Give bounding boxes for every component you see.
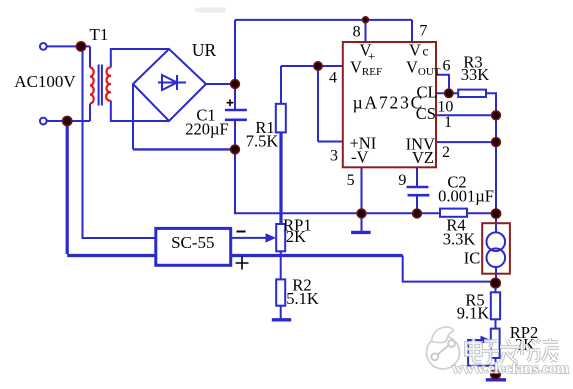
resistor R1 body <box>276 104 286 133</box>
svg-text:3.3K: 3.3K <box>443 230 476 249</box>
wire pin 8 lead <box>365 20 367 42</box>
resistor R3 body <box>458 90 486 97</box>
wire pin 7 lead <box>411 20 413 42</box>
svg-text:2K: 2K <box>286 227 306 246</box>
wire AC sense top: vertical from top junction down to SC-55 upper input <box>83 46 156 238</box>
wire SC-55 plus output rail (thick) <box>231 254 403 257</box>
svg-text:33K: 33K <box>461 65 490 84</box>
svg-text:6: 6 <box>443 58 451 75</box>
svg-text:10: 10 <box>437 99 453 116</box>
bridge rectifier UR diode symbol <box>158 75 186 90</box>
wire R5 top lead <box>495 283 497 292</box>
wire RP1 bottom lead <box>280 251 282 255</box>
junction C2 / minus rail <box>413 209 422 218</box>
svg-text:IC: IC <box>464 249 481 268</box>
svg-text:5: 5 <box>347 172 355 189</box>
junction CS / right bus <box>492 111 501 120</box>
svg-text:SC-55: SC-55 <box>171 233 214 252</box>
transformer T1 primary winding <box>90 68 94 104</box>
svg-text:VZ: VZ <box>412 148 434 167</box>
svg-text:7.5K: 7.5K <box>246 132 279 151</box>
svg-text:µA723C: µA723C <box>353 93 424 113</box>
wire pin 5 ground stub <box>361 213 363 232</box>
svg-text:UR: UR <box>192 40 217 60</box>
wire C1 bus vertical upper <box>234 20 236 110</box>
wire R5 to RP2 <box>495 319 497 328</box>
svg-text:1: 1 <box>444 114 452 131</box>
junction lamp IC bottom / R5 <box>491 278 501 288</box>
lamp/optocoupler IC box <box>482 223 510 274</box>
wire primary top lead <box>89 46 91 67</box>
SC-55 block <box>156 228 231 265</box>
wire secondary top lead to bridge top corner <box>111 49 169 68</box>
wire top rail V+ <box>235 19 412 21</box>
wire bottom rail to C1 minus junction <box>133 148 235 150</box>
svg-text:4: 4 <box>329 70 337 87</box>
wire CS pin line <box>436 114 496 116</box>
wire R3 right lead down right bus <box>486 93 496 213</box>
junction R4 / lamp IC top <box>491 209 500 218</box>
watermark smudge top <box>195 8 226 13</box>
terminal input bottom <box>40 118 47 125</box>
lamp IC lower circle <box>487 248 506 267</box>
wire plus feed down and right to lamp bottom node <box>403 256 496 282</box>
resistor R2 body <box>276 279 285 305</box>
wire R1 bottom lead to RP1 (thick) <box>279 132 282 224</box>
svg-text:www.elecfans.com: www.elecfans.com <box>452 361 569 377</box>
wire CL pin to R3 <box>436 92 458 94</box>
wire top terminal to transformer primary <box>47 45 90 47</box>
capacitor C1 polarity plus <box>227 99 234 106</box>
wire minus rail: R4 right lead to right bus <box>467 212 496 214</box>
wire R2 bottom lead to ground <box>280 306 282 320</box>
svg-text:8: 8 <box>353 24 361 41</box>
junction pin 8 on V+ rail <box>363 17 369 23</box>
bridge rectifier UR body <box>133 49 206 121</box>
transformer T1 core <box>99 65 102 106</box>
potentiometer RP2 body <box>491 329 500 358</box>
wire pin 5 lead <box>361 167 363 213</box>
junction bridge plus / C1 top <box>231 80 240 89</box>
capacitor C2 plates <box>407 187 430 195</box>
wire pin 4 VREF line <box>281 65 343 67</box>
junction RP2 / ground <box>491 369 501 379</box>
wire AC sense bottom: from bottom junction down to SC-55 lower input (thick) <box>67 121 156 256</box>
wire bridge negative corner down to bottom rail <box>132 84 134 149</box>
wire INV pin line <box>436 141 496 143</box>
wire lamp IC bottom lead <box>495 267 497 283</box>
junction VREF-NI link <box>314 62 322 70</box>
watermark logo circle <box>427 327 460 369</box>
ground below R2 <box>272 318 291 321</box>
svg-text:9: 9 <box>398 172 406 189</box>
potentiometer RP1 wiper arrowhead <box>266 233 277 242</box>
ground at bottom right <box>486 378 506 381</box>
svg-text:5.1K: 5.1K <box>286 289 319 308</box>
junction bottom terminal node <box>63 116 72 125</box>
wire minus rail: C1 minus down and across to R4 <box>235 149 440 213</box>
watermark chinese text 电子发烧友 (embossed) <box>466 338 559 363</box>
wire RP1 wiper feed from SC-55 minus output <box>231 237 266 239</box>
potentiometer RP1 body <box>276 224 285 251</box>
svg-text:VREF: VREF <box>350 58 382 79</box>
terminal input top <box>40 43 47 50</box>
svg-text:AC100V: AC100V <box>14 72 76 91</box>
svg-text:3: 3 <box>330 148 338 165</box>
IC U1 uA723C box <box>343 42 436 167</box>
polarity minus at SC-55 output <box>237 231 246 233</box>
svg-text:7: 7 <box>419 23 427 40</box>
junction INV / right bus <box>492 138 501 147</box>
svg-text:2: 2 <box>442 144 450 161</box>
transformer T1 secondary winding <box>106 67 111 100</box>
svg-text:-V: -V <box>351 148 368 167</box>
wire RP2 wiper return <box>468 340 495 366</box>
svg-text:9.1K: 9.1K <box>457 304 490 323</box>
svg-text:220µF: 220µF <box>185 120 228 139</box>
polarity plus at SC-55 output <box>236 257 249 270</box>
potentiometer RP2 wiper arrowhead <box>481 336 491 345</box>
wire C2 bottom to minus rail <box>416 195 418 213</box>
junction C1 minus / bottom rail <box>231 145 240 154</box>
wire VREF to NI link <box>317 66 319 142</box>
wire secondary bottom lead to bridge bottom corner <box>111 101 169 122</box>
wire R2 top lead <box>280 256 282 280</box>
wire C1 bus vertical lower <box>234 120 236 150</box>
wire primary bottom lead <box>89 104 91 122</box>
junction pin 5 / minus rail <box>357 209 366 218</box>
capacitor C1 plates <box>225 110 247 120</box>
wire pin 3 NI line <box>318 141 343 143</box>
svg-text:T1: T1 <box>90 25 109 44</box>
wire pin 9 lead to C2 <box>416 167 418 187</box>
svg-text:+: + <box>368 49 375 64</box>
wire bottom terminal to primary <box>47 120 90 122</box>
junction top terminal node <box>76 42 85 51</box>
lamp IC upper circle <box>487 232 506 251</box>
wire R1 top lead <box>280 66 282 104</box>
wire RP2 bottom lead to ground <box>495 358 497 374</box>
junction VOUT-CL <box>445 89 453 97</box>
svg-text:0.001µF: 0.001µF <box>438 187 494 206</box>
ground at pin 5 <box>351 231 371 234</box>
wire right bus into lamp IC <box>495 213 497 232</box>
resistor R5 body <box>491 292 500 319</box>
wire bridge positive corner to C1 bus <box>206 83 235 85</box>
resistor R4 body <box>440 209 467 217</box>
wire pin 6 VOUT jog down to CL <box>436 75 449 94</box>
